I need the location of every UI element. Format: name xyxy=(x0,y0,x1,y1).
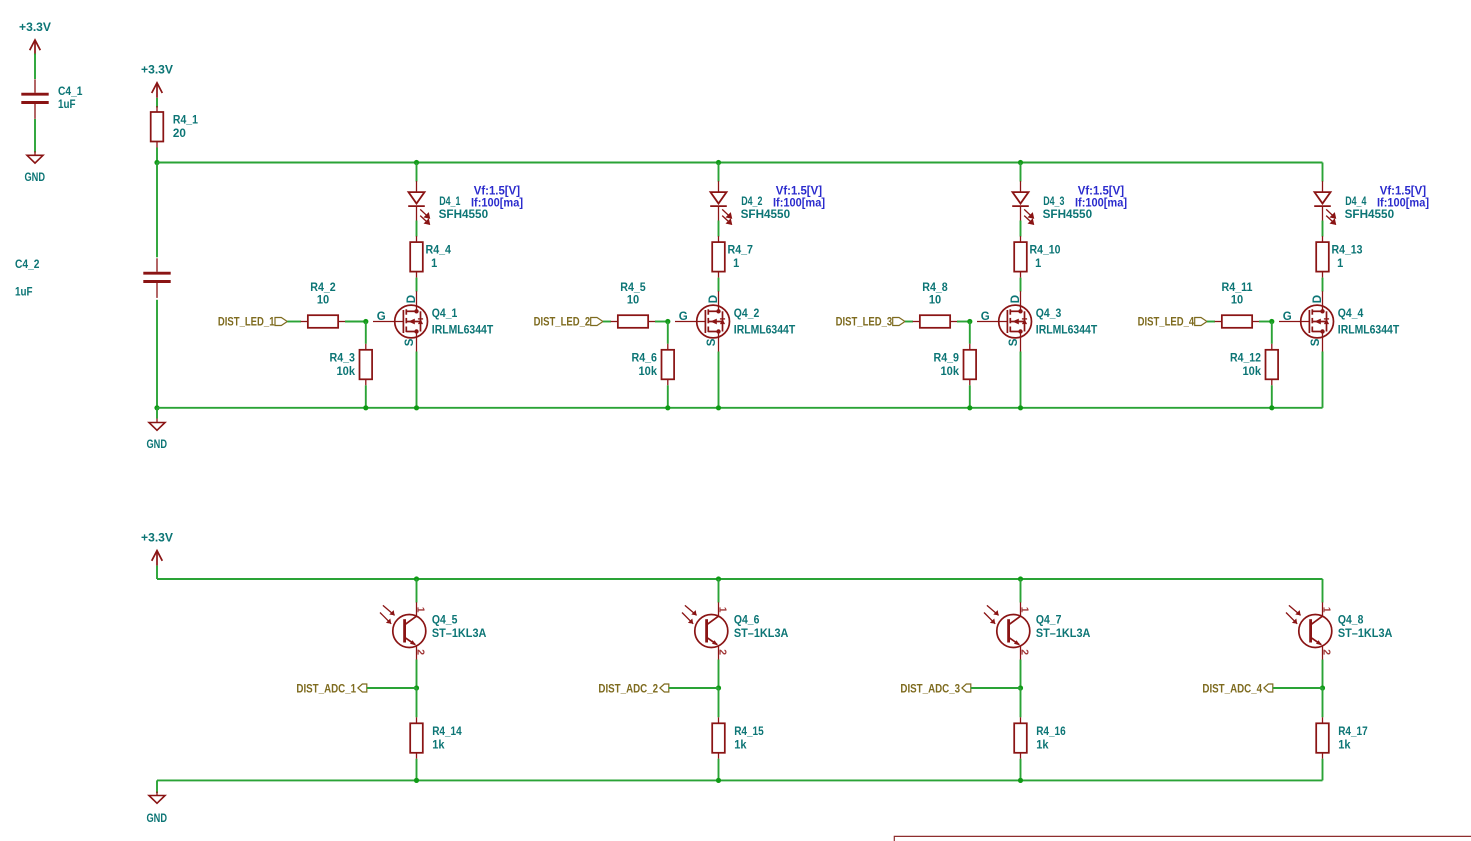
wire xyxy=(718,759,720,781)
wire xyxy=(416,660,418,689)
svg-text:1uF: 1uF xyxy=(15,287,33,299)
wire xyxy=(156,163,158,258)
wire xyxy=(1322,759,1324,781)
svg-text:1k: 1k xyxy=(1338,739,1351,751)
svg-text:Q4_3: Q4_3 xyxy=(1036,308,1062,320)
svg-text:2: 2 xyxy=(1018,649,1030,655)
phototransistor Q4_5 xyxy=(380,602,486,659)
wire xyxy=(1020,759,1022,781)
svg-text:SFH4550: SFH4550 xyxy=(741,209,791,221)
global label DIST_LED_4 xyxy=(1138,317,1207,329)
global label DIST_ADC_2 xyxy=(598,683,668,695)
svg-text:SFH4550: SFH4550 xyxy=(1345,209,1395,221)
wire xyxy=(416,352,418,408)
wire xyxy=(1271,385,1273,408)
svg-text:DIST_LED_1: DIST_LED_1 xyxy=(218,317,275,329)
wire +3.3V rail 2 xyxy=(157,578,1323,580)
wire xyxy=(345,321,366,323)
power +3.3V xyxy=(141,533,173,566)
wire xyxy=(416,579,418,603)
svg-text:ST–1KL3A: ST–1KL3A xyxy=(734,628,789,640)
wire xyxy=(365,322,367,344)
svg-text:2: 2 xyxy=(1320,649,1332,655)
junction xyxy=(414,778,419,783)
wire xyxy=(1322,579,1324,603)
wire xyxy=(1322,163,1324,182)
svg-text:1k: 1k xyxy=(1036,739,1049,751)
wire xyxy=(156,408,158,419)
wire xyxy=(287,321,301,323)
junction xyxy=(414,160,419,165)
wire xyxy=(367,687,417,689)
global label DIST_ADC_3 xyxy=(900,683,970,695)
svg-text:SFH4550: SFH4550 xyxy=(1043,209,1093,221)
svg-text:Vf:1.5[V]: Vf:1.5[V] xyxy=(1380,185,1426,197)
LED D4_2 xyxy=(710,181,825,224)
wire xyxy=(669,687,719,689)
wire xyxy=(957,321,970,323)
wire xyxy=(971,687,1021,689)
wire xyxy=(718,221,720,237)
svg-text:1: 1 xyxy=(1035,258,1042,270)
wire xyxy=(416,759,418,781)
resistor R4_11 xyxy=(1215,282,1260,328)
resistor R4_6 xyxy=(632,344,675,386)
svg-text:G: G xyxy=(1283,311,1292,323)
wire xyxy=(1020,579,1022,603)
wire xyxy=(1322,352,1324,408)
wire xyxy=(718,352,720,408)
resistor R4_12 xyxy=(1230,344,1278,386)
ground xyxy=(25,151,46,184)
junction xyxy=(665,319,670,324)
wire xyxy=(1271,322,1273,344)
resistor R4_4 xyxy=(410,236,451,278)
wire +3.3V rail xyxy=(157,162,1323,164)
wire xyxy=(1020,352,1022,408)
sheet frame xyxy=(894,836,1471,841)
junction xyxy=(1269,319,1274,324)
svg-text:DIST_ADC_2: DIST_ADC_2 xyxy=(598,683,658,695)
svg-text:GND: GND xyxy=(25,172,46,184)
wire xyxy=(667,385,669,408)
svg-text:10: 10 xyxy=(929,295,941,307)
svg-text:S: S xyxy=(1008,338,1020,346)
ground xyxy=(147,419,168,452)
svg-text:1: 1 xyxy=(716,607,728,613)
junction xyxy=(414,685,419,690)
svg-text:Vf:1.5[V]: Vf:1.5[V] xyxy=(1078,185,1124,197)
junction xyxy=(665,405,670,410)
svg-text:C4_1: C4_1 xyxy=(58,86,83,98)
svg-text:10: 10 xyxy=(317,295,329,307)
svg-text:1: 1 xyxy=(733,258,740,270)
svg-text:1: 1 xyxy=(1337,258,1344,270)
junction xyxy=(716,685,721,690)
svg-text:Q4_2: Q4_2 xyxy=(734,308,760,320)
resistor R4_1 xyxy=(151,106,199,148)
svg-text:10k: 10k xyxy=(337,366,356,378)
wire xyxy=(34,54,36,80)
junction xyxy=(1018,778,1023,783)
wire xyxy=(416,688,418,717)
svg-text:If:100[ma]: If:100[ma] xyxy=(471,198,523,210)
wire xyxy=(156,566,158,579)
junction xyxy=(414,405,419,410)
junction xyxy=(1018,160,1023,165)
svg-text:If:100[ma]: If:100[ma] xyxy=(1075,198,1127,210)
svg-text:DIST_LED_4: DIST_LED_4 xyxy=(1138,317,1195,329)
global label DIST_LED_2 xyxy=(534,317,603,329)
junction xyxy=(967,319,972,324)
wire xyxy=(1322,688,1324,717)
capacitor C4_2 xyxy=(15,258,171,298)
wire xyxy=(718,579,720,603)
svg-text:DIST_ADC_3: DIST_ADC_3 xyxy=(900,683,960,695)
svg-text:R4_16: R4_16 xyxy=(1036,726,1066,738)
wire xyxy=(156,148,158,163)
svg-text:IRLML6344T: IRLML6344T xyxy=(734,324,795,336)
phototransistor Q4_6 xyxy=(682,602,788,659)
svg-text:Q4_7: Q4_7 xyxy=(1036,614,1062,626)
svg-text:GND: GND xyxy=(147,439,168,451)
svg-text:10: 10 xyxy=(1231,295,1243,307)
resistor R4_5 xyxy=(611,282,656,328)
svg-text:10k: 10k xyxy=(941,366,960,378)
resistor R4_2 xyxy=(301,282,346,328)
svg-text:+3.3V: +3.3V xyxy=(141,533,173,545)
transistor Q4_1 xyxy=(373,291,493,351)
LED D4_4 xyxy=(1314,181,1429,224)
wire xyxy=(969,322,971,344)
transistor Q4_3 xyxy=(977,291,1097,351)
wire xyxy=(1207,321,1215,323)
global label DIST_ADC_4 xyxy=(1202,683,1272,695)
resistor R4_9 xyxy=(934,344,977,386)
svg-text:D: D xyxy=(1010,295,1022,303)
wire xyxy=(156,780,158,793)
svg-text:If:100[ma]: If:100[ma] xyxy=(773,198,825,210)
wire xyxy=(156,98,158,108)
svg-text:1: 1 xyxy=(1320,607,1332,613)
resistor R4_14 xyxy=(410,717,462,759)
svg-text:C4_2: C4_2 xyxy=(15,259,40,271)
wire xyxy=(667,322,669,344)
svg-text:R4_6: R4_6 xyxy=(632,352,658,364)
svg-text:IRLML6344T: IRLML6344T xyxy=(1338,324,1399,336)
wire xyxy=(718,278,720,292)
junction xyxy=(1320,685,1325,690)
svg-text:D: D xyxy=(708,295,720,303)
junction xyxy=(1018,405,1023,410)
svg-text:ST–1KL3A: ST–1KL3A xyxy=(432,628,487,640)
svg-text:Q4_1: Q4_1 xyxy=(432,308,458,320)
wire xyxy=(1020,660,1022,689)
svg-text:20: 20 xyxy=(173,128,186,140)
svg-text:G: G xyxy=(981,311,990,323)
LED D4_3 xyxy=(1012,181,1127,224)
resistor R4_3 xyxy=(330,344,373,386)
svg-text:2: 2 xyxy=(414,649,426,655)
svg-text:G: G xyxy=(377,311,386,323)
svg-text:GND: GND xyxy=(147,813,168,825)
transistor Q4_4 xyxy=(1279,291,1399,351)
svg-text:1: 1 xyxy=(431,258,438,270)
ground xyxy=(147,792,168,826)
wire xyxy=(969,385,971,408)
junction xyxy=(1018,685,1023,690)
LED D4_1 xyxy=(408,181,523,224)
wire xyxy=(365,385,367,408)
resistor R4_10 xyxy=(1014,236,1060,278)
svg-text:1: 1 xyxy=(414,607,426,613)
resistor R4_8 xyxy=(913,282,958,328)
power +3.3V xyxy=(19,22,51,55)
wire xyxy=(416,278,418,292)
svg-text:DIST_ADC_4: DIST_ADC_4 xyxy=(1202,683,1262,695)
resistor R4_17 xyxy=(1316,717,1368,759)
svg-text:Q4_4: Q4_4 xyxy=(1338,308,1364,320)
wire xyxy=(416,163,418,182)
junction xyxy=(716,576,721,581)
wire xyxy=(1322,278,1324,292)
svg-text:R4_7: R4_7 xyxy=(728,245,754,257)
svg-text:SFH4550: SFH4550 xyxy=(439,209,489,221)
wire xyxy=(905,321,913,323)
svg-text:G: G xyxy=(679,311,688,323)
resistor R4_7 xyxy=(712,236,753,278)
svg-text:IRLML6344T: IRLML6344T xyxy=(432,324,493,336)
junction xyxy=(1018,576,1023,581)
wire xyxy=(1322,660,1324,689)
svg-text:D4_1: D4_1 xyxy=(439,196,461,208)
wire xyxy=(718,163,720,182)
global label DIST_LED_3 xyxy=(836,317,905,329)
wire xyxy=(1273,687,1323,689)
svg-text:+3.3V: +3.3V xyxy=(141,65,173,77)
wire xyxy=(34,119,36,153)
junction xyxy=(716,160,721,165)
junction xyxy=(414,576,419,581)
svg-text:+3.3V: +3.3V xyxy=(19,22,51,34)
svg-text:S: S xyxy=(1310,338,1322,346)
svg-text:ST–1KL3A: ST–1KL3A xyxy=(1338,628,1393,640)
svg-text:R4_9: R4_9 xyxy=(934,352,960,364)
svg-text:IRLML6344T: IRLML6344T xyxy=(1036,324,1097,336)
svg-text:1k: 1k xyxy=(734,739,747,751)
transistor Q4_2 xyxy=(675,291,795,351)
svg-text:R4_3: R4_3 xyxy=(330,352,356,364)
wire xyxy=(718,660,720,689)
wire GND rail 2 xyxy=(157,779,1323,781)
wire xyxy=(1020,221,1022,237)
phototransistor Q4_8 xyxy=(1286,602,1392,659)
resistor R4_16 xyxy=(1014,717,1065,759)
wire xyxy=(1020,688,1022,717)
svg-text:DIST_LED_2: DIST_LED_2 xyxy=(534,317,591,329)
svg-text:1: 1 xyxy=(1018,607,1030,613)
svg-text:R4_8: R4_8 xyxy=(922,282,948,294)
junction xyxy=(154,160,159,165)
svg-text:Q4_8: Q4_8 xyxy=(1338,614,1364,626)
svg-text:R4_4: R4_4 xyxy=(426,245,452,257)
phototransistor Q4_7 xyxy=(984,602,1090,659)
svg-text:Vf:1.5[V]: Vf:1.5[V] xyxy=(776,185,822,197)
svg-text:R4_11: R4_11 xyxy=(1222,282,1254,294)
wire xyxy=(655,321,668,323)
svg-text:D4_2: D4_2 xyxy=(741,196,762,208)
svg-text:10k: 10k xyxy=(1243,366,1262,378)
junction xyxy=(154,405,159,410)
svg-text:S: S xyxy=(706,338,718,346)
svg-text:D4_3: D4_3 xyxy=(1043,196,1064,208)
resistor R4_15 xyxy=(712,717,764,759)
svg-text:1k: 1k xyxy=(432,739,445,751)
junction xyxy=(363,319,368,324)
junction xyxy=(716,778,721,783)
svg-text:R4_15: R4_15 xyxy=(734,726,764,738)
global label DIST_LED_1 xyxy=(218,317,287,329)
global label DIST_ADC_1 xyxy=(296,683,366,695)
wire xyxy=(1020,163,1022,182)
junction xyxy=(716,405,721,410)
wire xyxy=(1322,221,1324,237)
svg-text:D: D xyxy=(1312,295,1324,303)
svg-text:R4_17: R4_17 xyxy=(1338,726,1368,738)
svg-text:If:100[ma]: If:100[ma] xyxy=(1377,198,1429,210)
svg-text:ST–1KL3A: ST–1KL3A xyxy=(1036,628,1091,640)
svg-text:R4_13: R4_13 xyxy=(1332,245,1363,257)
svg-text:1uF: 1uF xyxy=(58,99,76,111)
svg-text:R4_5: R4_5 xyxy=(620,282,646,294)
svg-text:R4_14: R4_14 xyxy=(432,726,462,738)
resistor R4_13 xyxy=(1316,236,1362,278)
svg-text:S: S xyxy=(404,338,416,346)
svg-text:Q4_6: Q4_6 xyxy=(734,614,760,626)
capacitor C4_1 xyxy=(21,79,83,119)
wire xyxy=(156,300,158,408)
wire xyxy=(416,221,418,237)
wire xyxy=(1020,278,1022,292)
svg-text:R4_1: R4_1 xyxy=(173,114,199,126)
svg-text:10: 10 xyxy=(627,295,639,307)
svg-text:DIST_ADC_1: DIST_ADC_1 xyxy=(296,683,356,695)
wire xyxy=(1259,321,1272,323)
svg-text:10k: 10k xyxy=(639,366,658,378)
power +3.3V xyxy=(141,65,173,98)
junction xyxy=(967,405,972,410)
svg-text:R4_12: R4_12 xyxy=(1230,352,1261,364)
svg-text:D: D xyxy=(406,295,418,303)
svg-text:2: 2 xyxy=(716,649,728,655)
svg-text:R4_2: R4_2 xyxy=(310,282,336,294)
svg-text:Q4_5: Q4_5 xyxy=(432,614,458,626)
svg-text:D4_4: D4_4 xyxy=(1345,196,1367,208)
svg-text:DIST_LED_3: DIST_LED_3 xyxy=(836,317,893,329)
wire xyxy=(603,321,611,323)
svg-text:Vf:1.5[V]: Vf:1.5[V] xyxy=(474,185,520,197)
junction xyxy=(363,405,368,410)
wire GND rail xyxy=(157,407,1323,409)
junction xyxy=(1269,405,1274,410)
wire xyxy=(718,688,720,717)
svg-text:R4_10: R4_10 xyxy=(1030,245,1061,257)
